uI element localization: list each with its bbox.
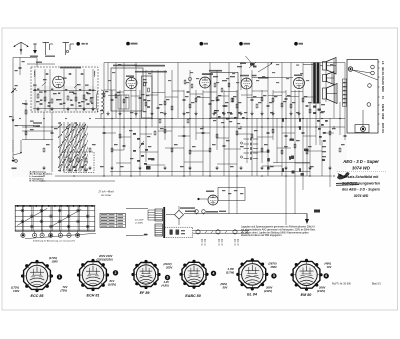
svg-text:(48V): (48V) <box>324 261 331 265</box>
svg-text:LS: LS <box>381 61 385 65</box>
svg-text:NSN: NSN <box>381 86 385 92</box>
svg-text:abweichend davon auf MW angege: abweichend davon auf MW angegeben. <box>241 235 282 237</box>
UKW extra part blobs <box>37 89 39 91</box>
speaker LS2 <box>323 75 327 82</box>
panel circles small <box>371 65 375 69</box>
svg-text:4,7W: 4,7W <box>227 267 235 271</box>
svg-text:bei 220V: bei 220V <box>135 220 144 222</box>
UKW box interior verticals <box>34 69 36 111</box>
svg-text:(220V)(225V): (220V)(225V) <box>96 257 112 261</box>
lower band labels <box>30 121 34 122</box>
panel circle top-left <box>348 67 352 71</box>
dial top edge dots <box>17 205 18 206</box>
arrow diagonal to EM80 <box>258 64 272 72</box>
tube V4 EABC80 circle <box>241 78 252 89</box>
dial grid pulley marks <box>22 210 24 212</box>
label ZF freq lines <box>135 65 165 67</box>
dial grid horizontals <box>15 210 95 212</box>
svg-text:50V: 50V <box>223 285 228 289</box>
wire EABC to EL84 grid <box>252 77 293 79</box>
midband labels <box>105 91 108 92</box>
dial cord pulleys row <box>21 233 25 237</box>
labels below trimmer <box>252 75 257 77</box>
numbered indicator dot 3 <box>165 275 170 280</box>
primary tap stubs <box>148 209 155 211</box>
labels left input <box>15 70 18 71</box>
mains input wires <box>126 207 148 209</box>
svg-text:4: 4 <box>213 272 215 276</box>
panel bottom small box <box>355 125 369 133</box>
input switch contact symbol <box>11 88 16 93</box>
oscillator coil box under ECH81 <box>118 95 129 109</box>
speaker LS3 <box>323 88 327 99</box>
svg-text:3: 3 <box>167 276 169 280</box>
numbered indicator dot 1 <box>57 274 62 279</box>
svg-text:TA: TA <box>381 96 385 99</box>
heater chain wires <box>193 230 249 232</box>
tube socket EM 80 <box>293 261 320 288</box>
tube socket EF 89 <box>134 263 158 287</box>
svg-text:81V: 81V <box>110 279 115 283</box>
scan tone wash <box>12 63 347 177</box>
voltage table <box>100 213 125 227</box>
wire rail segment right <box>273 162 310 164</box>
midband component row <box>103 93 105 97</box>
heater chain tube circles <box>196 230 200 234</box>
switch unit parts <box>69 158 71 162</box>
wire bottom rail y176 <box>55 175 332 177</box>
svg-text:(5,7W): (5,7W) <box>226 270 234 274</box>
tube socket EABC 80 <box>182 262 206 286</box>
tone resistor chain <box>267 150 270 153</box>
chassis rear panel box <box>347 60 378 134</box>
svg-text:an 50Hz: an 50Hz <box>135 223 144 225</box>
svg-text:(232V): (232V) <box>264 289 272 293</box>
svg-text:KW·M: KW·M <box>381 104 385 111</box>
right lower resistors <box>299 118 301 122</box>
svg-text:N: Netzschalter: N: Netzschalter <box>30 180 46 183</box>
rail labels <box>185 211 196 213</box>
svg-text:des AEG - 3 D - Supers: des AEG - 3 D - Supers <box>342 188 380 192</box>
dial long cord below <box>25 233 96 238</box>
dial grid verticals <box>21 205 23 231</box>
svg-text:Ersatz-Schaltbild mit: Ersatz-Schaltbild mit <box>344 175 379 179</box>
dial cord drive diagram <box>15 205 95 231</box>
bass cluster dark <box>146 166 151 170</box>
svg-text:ROT·KS: ROT·KS <box>381 123 385 133</box>
svg-text:10V: 10V <box>327 265 332 269</box>
lower band components <box>25 131 27 135</box>
svg-text:72V: 72V <box>63 285 68 289</box>
svg-text:158V: 158V <box>52 260 58 264</box>
svg-text:(90V): (90V) <box>221 282 228 286</box>
tube V5 EL84 circle <box>294 78 305 89</box>
svg-text:(172V): (172V) <box>11 285 19 289</box>
svg-text:Blatt 5/1: Blatt 5/1 <box>372 283 381 286</box>
AM input dashed stub <box>12 140 14 152</box>
pen scribble over subtitle <box>337 172 350 179</box>
svg-text:146V: 146V <box>13 289 19 293</box>
svg-text:(267V): (267V) <box>268 261 276 265</box>
svg-text:4,2V: 4,2V <box>163 280 170 284</box>
UKW tuner dashed box <box>31 67 98 112</box>
aerial terminal symbol 1 <box>43 42 50 44</box>
svg-text:3074 WD: 3074 WD <box>354 194 369 198</box>
svg-text:208V: 208V <box>265 285 272 289</box>
more component value labels upper band <box>118 64 121 65</box>
svg-text:ECC 85: ECC 85 <box>31 294 45 298</box>
UKW interior labels <box>33 85 37 86</box>
terminal strip comb <box>343 79 347 82</box>
earth arrow symbol <box>34 44 36 51</box>
fuse box dark <box>314 210 320 213</box>
switch unit dashed box below schematic <box>64 152 94 173</box>
svg-text:EM 80: EM 80 <box>301 293 313 297</box>
switch bank labels <box>58 123 61 124</box>
panel diagonal wires <box>353 70 371 73</box>
svg-text:EL 84: EL 84 <box>247 293 257 297</box>
ground arrow under input <box>12 117 14 120</box>
switch bank keyboard <box>59 122 61 172</box>
electrolytic capacitor cans <box>195 210 199 214</box>
box B top label <box>209 70 222 72</box>
svg-text:ECH 81: ECH 81 <box>87 294 100 298</box>
panel edge ticks <box>378 61 380 63</box>
wire above UKW box <box>27 63 55 65</box>
wire rail y127 <box>22 126 345 128</box>
junction dots on rails <box>19 118 20 119</box>
transformer primary winding box <box>155 209 163 221</box>
numbered indicator dot 2 <box>113 270 118 275</box>
grounds under tubes <box>107 112 109 114</box>
vertical wires set <box>25 100 27 140</box>
svg-text:206V: 206V <box>318 285 325 289</box>
svg-text:BU·KL: BU·KL <box>381 68 385 76</box>
grounds row bottom <box>43 166 45 168</box>
trimmer cluster <box>250 63 255 65</box>
right lower dark parts <box>290 139 295 141</box>
aerial terminal symbol 2 <box>63 42 70 44</box>
band indicator dot TA <box>126 42 130 46</box>
trimmer arrows in box <box>42 82 46 86</box>
power rail to measuring arrow <box>184 213 307 215</box>
tube V1 ECC85 triode circle <box>53 76 65 88</box>
IF amplifier shield box B <box>211 73 238 119</box>
svg-text:Lageplan und Spannungswerte ge: Lageplan und Spannungswerte gemessen mit… <box>241 226 315 229</box>
band indicator dot UKW <box>76 42 80 46</box>
IF filter box A <box>142 76 153 118</box>
svg-text:(4,8V): (4,8V) <box>161 284 169 288</box>
tube socket ECC 85 <box>24 263 51 290</box>
EM80 connection box <box>218 188 245 201</box>
svg-text:256V: 256V <box>270 265 277 269</box>
ferrite rod antenna coil <box>101 90 104 114</box>
IF coupling parts <box>184 80 186 84</box>
numbered indicator dot 5 <box>271 273 276 278</box>
svg-text:(210V): (210V) <box>163 262 171 266</box>
svg-text:2: 2 <box>115 271 117 275</box>
tube V2 ECH81 circle <box>126 78 137 89</box>
tone switch capacitor ladder <box>244 138 250 140</box>
svg-text:1: 1 <box>59 275 61 279</box>
coil to ground with circle <box>15 160 18 163</box>
svg-text:die Werte ohne ( ) gelten bei: die Werte ohne ( ) gelten bei Stellung U… <box>241 231 309 234</box>
svg-text:mit abgeschaltetem AVC-gemesse: mit abgeschaltetem AVC-gemessen mit Netz… <box>241 228 316 231</box>
dotted divider <box>337 171 386 173</box>
svg-text:27 mA - 48mA: 27 mA - 48mA <box>98 191 115 194</box>
measuring point arrow <box>306 214 308 220</box>
antenna dipole symbol <box>14 42 21 46</box>
svg-text:(173V): (173V) <box>49 256 57 260</box>
panel circle bottom <box>361 127 366 132</box>
svg-text:Seilführung der Abstimmung, vo: Seilführung der Abstimmung, von vorn ges… <box>33 240 76 243</box>
svg-text:205V: 205V <box>165 266 172 270</box>
wire bottom rail y181 partial <box>40 180 115 182</box>
svg-text:UKW: UKW <box>381 113 385 120</box>
svg-text:Ruf/Tl. Nr. 50 606: Ruf/Tl. Nr. 50 606 <box>332 283 351 286</box>
svg-text:(212V): (212V) <box>317 289 325 293</box>
volume pot cluster <box>133 133 136 135</box>
wire rail segment mid <box>22 130 53 132</box>
tube socket EL 84 <box>239 261 266 288</box>
tuning indicator diagonal wire <box>246 56 255 66</box>
wire rail y118 <box>95 118 345 120</box>
svg-text:SCH·M: SCH·M <box>381 76 385 85</box>
svg-text:(105V): (105V) <box>108 282 116 286</box>
wire top rail <box>104 62 345 64</box>
tube V3 EF89 circle <box>200 77 211 88</box>
heater winding tick pairs below <box>201 240 203 242</box>
voltage selector dashed box <box>165 227 193 238</box>
EABC80 diode cluster <box>214 112 217 114</box>
speaker LS1 <box>323 62 327 71</box>
svg-text:(75V): (75V) <box>61 288 68 292</box>
choke parts below transformer <box>313 106 316 108</box>
svg-text:3074 WD: 3074 WD <box>352 166 370 171</box>
numbered indicator dot 4 <box>211 271 216 276</box>
rectifier label AEG B250 <box>180 207 195 209</box>
band indicator dot MW <box>239 42 243 46</box>
svg-text:EF 89: EF 89 <box>140 291 151 295</box>
numbered indicator dot 6 <box>324 273 329 278</box>
power transformer T1 core bar <box>163 207 165 238</box>
transformer lower winding box <box>155 224 163 236</box>
svg-text:FB 1979A: FB 1979A <box>101 194 111 197</box>
EM80 tube near power <box>208 195 218 205</box>
wire rail y171 <box>110 171 310 173</box>
svg-text:200V 230V: 200V 230V <box>98 254 113 258</box>
svg-text:AEG - 3 D - Super: AEG - 3 D - Super <box>342 159 379 164</box>
antenna input components <box>19 58 21 76</box>
band indicator dot LW <box>200 42 204 46</box>
svg-text:6: 6 <box>325 274 327 278</box>
feedback cluster right <box>317 120 320 122</box>
svg-text:5: 5 <box>273 274 275 278</box>
UKW interior components <box>37 94 39 98</box>
short horizontal connectors <box>104 89 116 91</box>
band indicator dot KW <box>294 42 298 46</box>
wire left feed rail <box>13 57 37 59</box>
rectifier bridge diamond <box>175 210 184 219</box>
label UKW-Teil top <box>30 56 38 57</box>
tube socket ECH 81 <box>80 262 107 289</box>
ECH81 section box <box>111 68 143 111</box>
svg-text:EABC 80: EABC 80 <box>185 294 202 298</box>
output transformer windings dark bars <box>313 63 316 104</box>
dial diagonal cords <box>17 208 47 225</box>
